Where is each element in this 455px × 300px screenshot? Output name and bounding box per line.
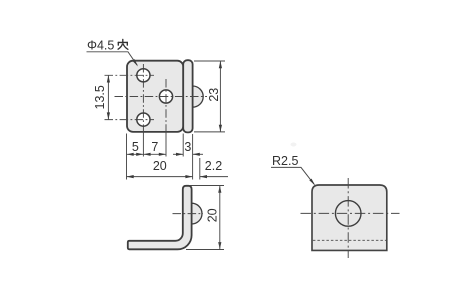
svg-text:R2.5: R2.5 xyxy=(272,154,298,168)
svg-text:2.2: 2.2 xyxy=(205,159,222,173)
svg-text:20: 20 xyxy=(153,159,167,173)
svg-text:Φ4.5: Φ4.5 xyxy=(87,39,114,53)
svg-text:5: 5 xyxy=(132,140,139,154)
svg-text:20: 20 xyxy=(206,208,220,222)
svg-text:7: 7 xyxy=(151,140,158,154)
svg-text:13.5: 13.5 xyxy=(93,85,107,109)
svg-text:23: 23 xyxy=(207,88,221,102)
svg-text:3: 3 xyxy=(184,140,191,154)
